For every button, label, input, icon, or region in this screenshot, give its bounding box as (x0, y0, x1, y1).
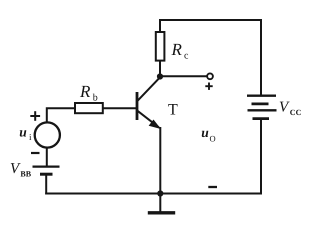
wire bottom rail (45, 193, 262, 195)
node emitter ground junction dot (157, 190, 163, 196)
svg-text:V: V (10, 161, 21, 177)
battery VCC plate 3 long (248, 109, 277, 111)
plus sign at source (30, 111, 40, 121)
svg-text:V: V (279, 99, 290, 115)
battery VCC plate 1 long (247, 95, 276, 97)
svg-text:R: R (79, 82, 91, 101)
minus sign at output (208, 186, 217, 188)
minus sign at source (31, 152, 40, 154)
wire source plus lead (47, 108, 76, 122)
wire Rc bottom lead (159, 61, 161, 78)
transistor Q1 emitter arrowhead (150, 120, 160, 128)
svg-text:c: c (184, 51, 189, 62)
svg-text:T: T (168, 102, 178, 119)
label VCC (279, 99, 302, 117)
battery VCC plate 2 short (252, 103, 269, 106)
resistor Rb (75, 103, 103, 113)
battery VCC plate 4 short (253, 117, 270, 120)
label ui (19, 124, 32, 142)
label Rc (171, 40, 190, 62)
transistor Q1 base bar (136, 92, 139, 120)
node collector junction dot (157, 73, 163, 79)
svg-text:u: u (201, 125, 209, 140)
wire top rail (159, 19, 262, 21)
ground bar (148, 211, 175, 214)
wire emitter down (159, 127, 161, 194)
wire Rc top lead (159, 19, 161, 33)
svg-text:BB: BB (20, 169, 31, 178)
label Rb (79, 82, 98, 104)
transistor Q1 collector lead (138, 77, 161, 101)
svg-text:O: O (210, 134, 216, 144)
resistor Rc (156, 32, 165, 61)
ground stub (159, 194, 161, 212)
svg-text:i: i (29, 132, 32, 142)
output terminal circle (207, 73, 213, 79)
battery VBB short plate (40, 173, 53, 176)
plus sign at output (205, 83, 212, 90)
wire right rail top (260, 19, 262, 96)
source ui circle (35, 122, 60, 147)
label VBB (10, 161, 32, 178)
wire right rail bottom (260, 119, 262, 195)
wire output lead (160, 75, 207, 77)
svg-text:CC: CC (290, 108, 302, 117)
label uO (201, 125, 215, 144)
svg-text:u: u (19, 124, 27, 139)
wire VBB to bottom rail (45, 174, 47, 195)
wire base lead (103, 107, 137, 109)
battery VBB long plate (33, 166, 60, 168)
svg-text:R: R (171, 40, 183, 59)
wire source to VBB battery (46, 148, 48, 168)
transistor Q1 emitter lead (138, 111, 159, 128)
svg-text:b: b (93, 93, 98, 104)
